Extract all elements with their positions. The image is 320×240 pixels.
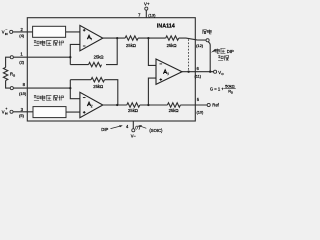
svg-text:25kΩ: 25kΩ [126,43,136,48]
svg-text:V−: V− [131,134,137,139]
svg-text:+: + [5,107,7,111]
svg-text:(5): (5) [19,113,25,118]
svg-text:G = 1 +: G = 1 + [210,86,225,91]
svg-text:(15): (15) [19,91,27,96]
svg-text:DIP: DIP [227,49,234,54]
svg-text:(10): (10) [196,110,204,115]
svg-text:(7): (7) [135,124,141,129]
svg-text:25kΩ: 25kΩ [93,84,103,89]
svg-text:(12): (12) [196,43,204,48]
svg-text:(2): (2) [19,59,25,64]
svg-text:V+: V+ [144,1,150,6]
svg-text:25kΩ: 25kΩ [94,55,104,60]
svg-text:G: G [13,74,15,78]
svg-text:25kΩ: 25kΩ [128,108,138,113]
svg-text:25kΩ: 25kΩ [167,43,177,48]
svg-text:(11): (11) [194,73,201,78]
svg-text:−: − [5,27,7,31]
svg-text:Ref: Ref [212,103,219,108]
svg-text:G: G [231,91,233,95]
svg-text:(13): (13) [148,13,156,18]
svg-text:(SOIC): (SOIC) [149,128,163,133]
svg-text:DIP: DIP [101,127,108,132]
svg-text:INA114: INA114 [157,24,175,30]
svg-text:(4): (4) [19,33,25,38]
svg-text:25kΩ: 25kΩ [169,108,179,113]
svg-text:IN: IN [5,112,8,116]
svg-text:IN: IN [5,32,8,36]
